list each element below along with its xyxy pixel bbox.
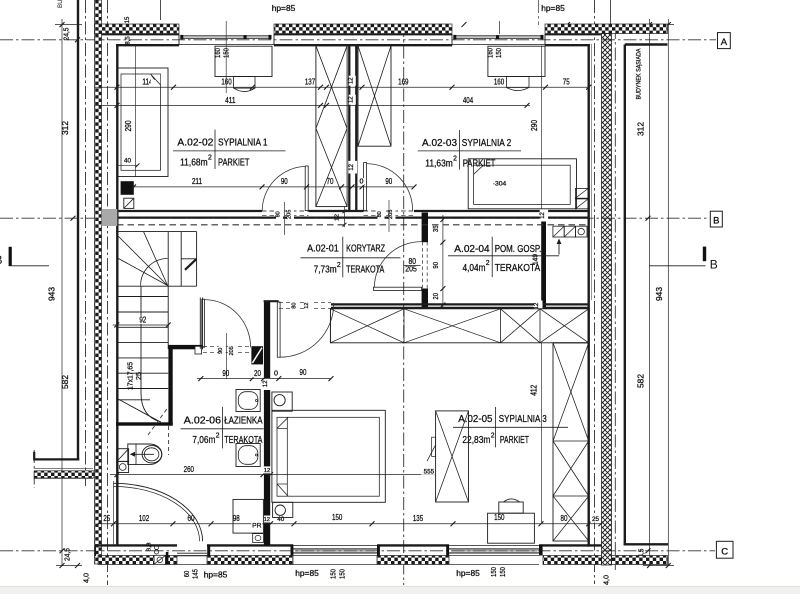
corner fixture with diagonal	[117, 449, 129, 462]
chimney flue black	[121, 181, 134, 195]
svg-text:KORYTARZ: KORYTARZ	[346, 242, 385, 254]
protrusion hatch	[34, 471, 94, 478]
desk bedroom1	[215, 46, 272, 76]
vertical axis left wall	[107, 0, 109, 585]
vertical axis left neighbour wall	[85, 0, 87, 488]
svg-text:411: 411	[225, 96, 236, 105]
svg-text:24,5: 24,5	[63, 548, 72, 561]
bottom-right dim ticks	[643, 565, 674, 567]
svg-text:hp=85: hp=85	[204, 571, 228, 580]
svg-text:160: 160	[494, 78, 505, 87]
door pom gosp leaf	[373, 287, 421, 290]
svg-text:hp=85: hp=85	[295, 569, 319, 578]
svg-text:90: 90	[281, 177, 288, 186]
protrusion edge lines	[34, 458, 79, 460]
svg-text:102: 102	[139, 514, 150, 523]
svg-text:12: 12	[264, 468, 270, 474]
party boundary stub top	[610, 0, 612, 26]
dashed door head 2	[364, 210, 414, 212]
dashed door head 1	[262, 210, 309, 212]
svg-text:145: 145	[191, 569, 200, 579]
dim line C y187 bedroom1	[133, 186, 414, 188]
axis crossing ticks	[71, 216, 76, 221]
tall wardrobe right bedroom3	[553, 343, 589, 541]
svg-text:A: A	[721, 37, 728, 48]
shower screen arcs	[114, 483, 203, 541]
bed bedroom1	[117, 68, 168, 177]
wall G left jamb block	[195, 346, 202, 354]
vertical axis centre	[403, 24, 405, 585]
svg-text:BU: BU	[57, 0, 64, 8]
nightstand bedroom2	[575, 188, 588, 198]
door bathroom arc	[205, 300, 251, 348]
svg-text:582: 582	[61, 375, 70, 389]
svg-text:BUDYNEK SĄSIADA: BUDYNEK SĄSIADA	[635, 48, 642, 100]
left exterior wall hatch	[95, 0, 102, 564]
door bedroom1 arc	[262, 166, 305, 210]
svg-text:25: 25	[592, 516, 600, 523]
svg-text:25: 25	[136, 372, 143, 380]
washbasin 1	[236, 390, 260, 412]
svg-text:8,5: 8,5	[126, 36, 132, 45]
svg-text:135: 135	[413, 514, 424, 523]
svg-text:24,5: 24,5	[61, 28, 70, 41]
wardrobe bedroom2	[358, 46, 391, 146]
svg-text:PR: PR	[252, 523, 262, 530]
stairs width dim 92	[113, 324, 169, 326]
svg-text:PARKIET: PARKIET	[218, 157, 250, 169]
vertical axis party wall	[594, 0, 596, 584]
svg-text:0: 0	[360, 179, 364, 186]
right neighbour witness x649.5	[649, 19, 651, 566]
stairs enclosure top	[116, 231, 197, 233]
page edge strip	[0, 587, 800, 594]
B arrow marker left	[9, 247, 12, 266]
desk bedroom2	[488, 46, 545, 76]
washbasin 2	[236, 444, 260, 467]
pom gosp arrow	[558, 240, 560, 255]
neighbour bottom wall inner face	[624, 543, 669, 545]
svg-text:11,68m: 11,68m	[180, 157, 208, 169]
svg-text:0: 0	[274, 370, 278, 377]
svg-text:hp=85: hp=85	[272, 4, 296, 13]
pom gosp vertical dim	[442, 215, 444, 309]
svg-text:POM. GOSP.: POM. GOSP.	[495, 243, 542, 255]
svg-text:4,0: 4,0	[82, 573, 91, 583]
window bottom 2	[449, 548, 539, 550]
wall B end small dim	[344, 207, 346, 227]
wall D label 12	[534, 301, 543, 311]
svg-text:A.02-03: A.02-03	[422, 137, 457, 149]
svg-text:943: 943	[48, 287, 57, 301]
svg-text:7,73m: 7,73m	[314, 264, 337, 276]
window bottom 1	[293, 548, 377, 550]
svg-text:582: 582	[637, 374, 646, 388]
svg-text:PARKIET: PARKIET	[463, 157, 496, 169]
dashed roof line corridor	[117, 224, 589, 226]
svg-text:12: 12	[348, 96, 354, 103]
svg-text:150: 150	[332, 513, 343, 522]
bottom wall band outlines across openings	[177, 555, 207, 557]
section line A-A axis	[0, 39, 716, 41]
svg-text:17x17,65: 17x17,65	[128, 362, 135, 390]
door bedroom2 size labels	[378, 209, 385, 220]
svg-text:7,06m: 7,06m	[192, 434, 215, 446]
chair bedroom3	[499, 502, 523, 513]
divider wall bedroom1/2 (B)	[348, 46, 350, 212]
svg-text:205: 205	[229, 346, 235, 355]
wardrobe strip top bedroom3	[330, 309, 588, 343]
svg-text:290: 290	[124, 120, 133, 132]
svg-text:A.02-02: A.02-02	[177, 136, 213, 148]
svg-text:40: 40	[277, 516, 285, 523]
bottom window inner face lines	[293, 544, 377, 546]
wc toilet	[128, 444, 162, 465]
svg-text:312: 312	[637, 122, 646, 136]
svg-text:12: 12	[534, 302, 540, 309]
svg-text:211: 211	[192, 177, 203, 186]
svg-text:A.02-01: A.02-01	[307, 242, 339, 254]
svg-text:150: 150	[329, 569, 338, 579]
svg-text:169: 169	[398, 78, 409, 87]
svg-text:4,04m: 4,04m	[463, 262, 486, 274]
svg-text:80: 80	[292, 302, 298, 308]
svg-text:12: 12	[540, 212, 546, 219]
bed bedroom2	[468, 159, 576, 209]
svg-text:20: 20	[254, 369, 261, 378]
svg-text:20: 20	[431, 293, 440, 300]
svg-text:ŁAZIENKA: ŁAZIENKA	[224, 414, 262, 426]
svg-text:160: 160	[221, 78, 232, 87]
nightstand bedroom3	[272, 392, 292, 411]
svg-text:2: 2	[216, 432, 220, 439]
understairs door opening dashed	[203, 346, 251, 348]
grey wall block at B axis	[102, 209, 118, 226]
door bedroom3 arc	[280, 303, 334, 357]
stairs jamb double line	[199, 298, 201, 349]
inner wall faces	[116, 44, 118, 547]
svg-text:90: 90	[431, 262, 440, 269]
svg-text:SYPIALNIA 2: SYPIALNIA 2	[462, 137, 512, 149]
svg-text:TERAKOTA: TERAKOTA	[346, 264, 384, 276]
washing machine	[233, 499, 263, 533]
right neighbour wall face x625	[624, 45, 626, 546]
svg-text:35: 35	[431, 225, 440, 232]
svg-text:137: 137	[305, 78, 316, 87]
section box A	[718, 33, 731, 49]
wall B thickness label	[348, 161, 357, 174]
dim line B y105	[95, 104, 530, 106]
stairs winder arc	[141, 259, 168, 286]
svg-text:B: B	[710, 258, 718, 272]
dressing desk bedroom3	[488, 513, 535, 543]
svg-text:90: 90	[300, 368, 307, 377]
svg-text:404: 404	[463, 96, 474, 105]
wall G stub with slash	[251, 346, 263, 364]
stairs upper treads	[167, 232, 169, 349]
svg-text:75: 75	[563, 78, 570, 87]
window top 2	[454, 35, 543, 37]
opening dashed bedroom3 door head	[279, 302, 331, 304]
dashed understair slope	[168, 426, 170, 455]
svg-text:C: C	[721, 546, 728, 557]
svg-text:40: 40	[124, 158, 132, 165]
door bedroom1 leaf	[305, 166, 308, 211]
svg-text:2: 2	[337, 262, 341, 269]
svg-text:A.02-06: A.02-06	[184, 414, 221, 426]
stairs lower treads	[117, 296, 168, 298]
stair bottom wall	[116, 422, 173, 425]
svg-text:98: 98	[233, 514, 240, 523]
svg-text:150: 150	[489, 567, 498, 577]
stairs winder radials	[144, 232, 168, 286]
dashed headroom line	[148, 407, 168, 435]
door bedroom3 size labels	[292, 300, 299, 311]
shower drain circles	[154, 545, 158, 549]
bed3 pillow folds	[277, 417, 288, 428]
bed1 dim 40	[117, 164, 138, 166]
svg-text:11,63m: 11,63m	[425, 157, 453, 169]
svg-text:12: 12	[349, 163, 355, 170]
svg-text:260: 260	[184, 465, 195, 474]
bedroom3 north wall (D)	[331, 303, 589, 305]
svg-text:22,83m: 22,83m	[462, 434, 490, 446]
section box B	[710, 211, 722, 227]
chair bedroom1	[234, 77, 255, 89]
window top 1	[181, 35, 271, 37]
svg-text:90: 90	[218, 348, 224, 354]
chair bedroom2	[507, 77, 530, 88]
svg-text:12: 12	[304, 302, 310, 308]
wall corridor north (A) upper face	[117, 210, 262, 212]
wall F label 12	[262, 378, 272, 390]
door bottom (exterior)	[177, 552, 207, 554]
stair side wall	[168, 349, 172, 426]
bathroom dim line y378	[197, 378, 331, 380]
door bedroom3 leaf	[277, 302, 280, 357]
dim line A y87	[95, 86, 589, 88]
svg-text:A.02-04: A.02-04	[454, 243, 489, 255]
svg-text:312: 312	[61, 121, 70, 135]
top-left 24,5 dim	[55, 24, 82, 26]
svg-text:80: 80	[276, 211, 282, 217]
bottom exterior wall hatch	[98, 556, 154, 565]
svg-text:2: 2	[453, 156, 457, 163]
svg-text:150: 150	[338, 569, 347, 579]
svg-text:B: B	[713, 215, 719, 226]
left witness line x62	[61, 19, 63, 566]
left neighbour wall face x78	[77, 0, 79, 460]
svg-text:555: 555	[424, 468, 435, 475]
neighbour top wall inner face	[625, 43, 668, 45]
bathroom dim line y474	[110, 474, 436, 476]
top wall inner line under hatch	[102, 34, 180, 36]
pom gosp west wall (C)	[422, 213, 428, 243]
svg-text:2: 2	[486, 260, 490, 267]
svg-text:412: 412	[529, 385, 538, 396]
svg-text:hp=85: hp=85	[541, 4, 565, 13]
svg-text:hp=85: hp=85	[456, 569, 480, 578]
svg-text:·304: ·304	[493, 181, 507, 188]
svg-text:SYPIALNIA 1: SYPIALNIA 1	[218, 136, 268, 148]
section line B-B axis	[0, 217, 709, 219]
svg-text:12: 12	[263, 380, 269, 387]
svg-text:205: 205	[287, 210, 293, 219]
bed bedroom3	[272, 410, 385, 502]
bottom wall column with circle	[154, 555, 166, 564]
top exterior wall hatch	[95, 24, 180, 34]
svg-text:25: 25	[103, 514, 110, 523]
svg-text:90: 90	[222, 369, 229, 378]
svg-text:92: 92	[139, 315, 146, 324]
bottom-left wall corner	[94, 545, 96, 556]
B arrow marker right	[703, 247, 706, 262]
right party wall hatch	[602, 34, 612, 566]
section line C-C axis	[0, 550, 715, 552]
door bathroom leaf	[202, 299, 205, 347]
wall corridor north lower face	[117, 216, 589, 218]
door pom gosp arc	[374, 242, 421, 287]
svg-text:90: 90	[385, 177, 392, 186]
right witness x668	[667, 19, 669, 566]
pom gosp shelf squares	[553, 226, 564, 237]
svg-text:70: 70	[327, 177, 334, 186]
pom gosp west door opening dashed	[422, 242, 424, 289]
svg-text:B: B	[0, 253, 3, 267]
svg-text:4,0: 4,0	[602, 575, 611, 585]
flue vent square	[124, 198, 134, 208]
svg-text:943: 943	[655, 287, 664, 301]
bedroom3 wardrobe dim 555	[421, 467, 437, 475]
svg-text:A.02-05: A.02-05	[458, 413, 492, 425]
pom gosp east wall (E)	[541, 213, 546, 310]
svg-text:12: 12	[264, 517, 270, 523]
bathroom north wall (G)	[168, 345, 203, 349]
fixture with circle	[117, 461, 129, 472]
svg-text:8,8: 8,8	[147, 543, 153, 552]
svg-text:80: 80	[561, 514, 568, 523]
stairs thick arrow mark	[185, 259, 196, 270]
bottom-left dim ticks	[56, 565, 82, 567]
svg-text:290: 290	[530, 119, 539, 131]
svg-text:150: 150	[494, 48, 503, 58]
wardrobe bedroom1	[316, 46, 347, 207]
svg-text:15: 15	[125, 16, 131, 23]
section box C	[716, 541, 733, 558]
svg-text:80: 80	[377, 211, 383, 217]
door bathroom size labels	[219, 345, 226, 356]
svg-text:SYPIALNIA 3: SYPIALNIA 3	[499, 413, 547, 425]
svg-text:PARKIET: PARKIET	[500, 434, 529, 446]
bottom interior dim line y524	[98, 523, 602, 525]
protrusion axis end	[33, 450, 35, 488]
mid wardrobe bedroom3	[436, 411, 469, 502]
top-right dim ticks	[643, 24, 674, 26]
svg-text:150: 150	[494, 513, 505, 522]
door bedroom2 arc	[367, 164, 413, 211]
svg-text:150: 150	[498, 567, 507, 577]
door bedroom2 leaf	[364, 163, 367, 211]
bathroom east wall (F)	[264, 301, 270, 545]
svg-text:TERAKOTA: TERAKOTA	[495, 262, 541, 274]
svg-text:2: 2	[208, 155, 212, 162]
nightstand at bed3 foot	[273, 502, 293, 517]
stairs walking line	[140, 286, 142, 393]
svg-text:12: 12	[335, 214, 341, 221]
svg-text:2: 2	[491, 432, 495, 439]
stairs break line	[116, 398, 161, 422]
svg-text:12: 12	[348, 77, 354, 84]
wall E top label 12	[540, 210, 548, 222]
door bedroom1 size labels	[276, 209, 283, 220]
